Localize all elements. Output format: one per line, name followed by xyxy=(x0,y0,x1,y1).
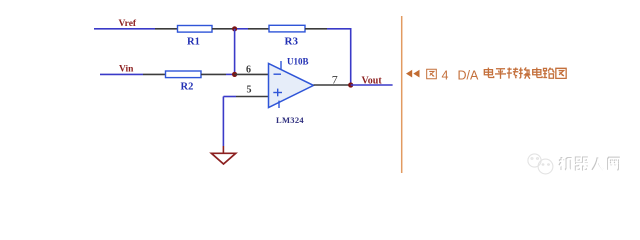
wire: R1 to node A (dark) xyxy=(212,28,232,30)
ground xyxy=(211,153,235,164)
wire: Vref rail left segment (blue) xyxy=(94,28,155,30)
wire: output to Vout (blue) xyxy=(351,84,393,86)
junction node A xyxy=(232,26,237,31)
separator line xyxy=(401,16,403,173)
wire: pin 5 down to ground (blue then dark red) xyxy=(222,97,224,147)
op-amp top power stub xyxy=(280,61,282,70)
watermark logo bubbles xyxy=(528,154,553,174)
svg-text:4: 4 xyxy=(442,68,449,82)
junction node Vout xyxy=(348,82,353,87)
wire: Vin rail to R2 (dark) xyxy=(143,73,166,75)
wire: R3 to feedback corner (dark then blue) xyxy=(305,28,327,30)
junction node B xyxy=(232,72,237,77)
resistor R1 xyxy=(178,26,213,33)
caption 路 xyxy=(543,68,554,79)
caption 平 xyxy=(495,69,506,79)
svg-text:D/A: D/A xyxy=(458,68,480,82)
op-amp bottom power stub xyxy=(278,101,280,108)
wire: Vin rail left segment (blue) xyxy=(100,73,143,75)
caption arrows xyxy=(406,70,412,78)
wire: node B to op-amp pin 6 (dark) xyxy=(235,73,269,75)
svg-text:LM324: LM324 xyxy=(276,115,304,125)
svg-text:Vin: Vin xyxy=(119,65,134,75)
caption 电 xyxy=(484,68,493,78)
svg-text:U10B: U10B xyxy=(287,56,309,66)
resistor R2 xyxy=(166,71,202,78)
svg-text:R2: R2 xyxy=(181,82,194,93)
svg-text:7: 7 xyxy=(332,73,338,87)
svg-text:Vref: Vref xyxy=(119,19,137,29)
wire: pin 5 horizontal (blue corner then dark) xyxy=(223,96,236,98)
resistor R3 xyxy=(269,25,305,32)
wire: output pin 7 (dark) xyxy=(314,84,350,86)
wire: Vref rail to R1 (dark) xyxy=(155,28,178,30)
caption 电 second xyxy=(533,68,542,78)
caption 图 second xyxy=(556,68,566,78)
watermark 网 xyxy=(608,158,619,170)
svg-text:6: 6 xyxy=(246,64,251,75)
svg-text:R3: R3 xyxy=(285,35,299,47)
caption 图 xyxy=(427,69,437,78)
op-amp plus input mark xyxy=(273,92,282,94)
watermark 人 xyxy=(592,157,603,170)
svg-text:5: 5 xyxy=(247,85,252,96)
wire: node A to R3 (blue then dark) xyxy=(232,28,248,30)
caption 转 xyxy=(507,68,519,79)
op-amp U10B xyxy=(269,64,314,108)
wire: node A down to node B (blue vertical) xyxy=(234,29,236,75)
wire: R2 to node B (dark then blue) xyxy=(201,73,226,75)
watermark 器 xyxy=(575,157,588,169)
svg-text:R1: R1 xyxy=(187,37,200,48)
op-amp minus input mark xyxy=(274,73,282,75)
watermark 机 xyxy=(559,157,572,170)
caption 换 xyxy=(519,67,531,78)
svg-text:Vout: Vout xyxy=(362,75,383,86)
